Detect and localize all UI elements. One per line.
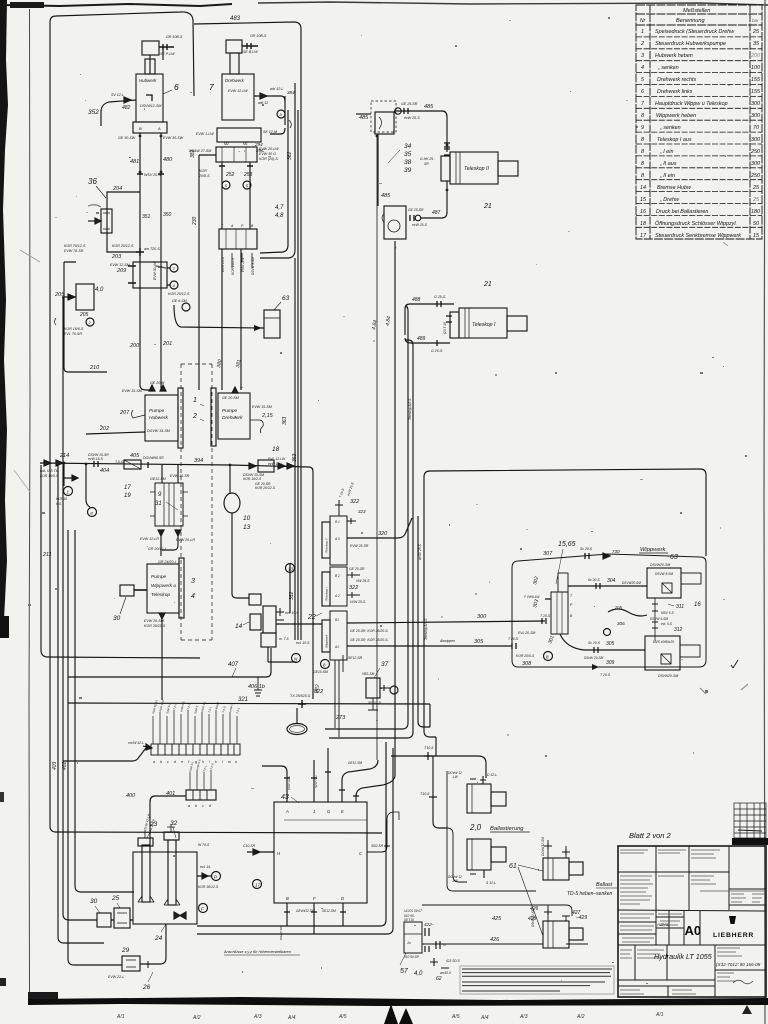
svg-text:Teleskop A/3-S: Teleskop A/3-S <box>424 618 428 640</box>
junction dots teleskop <box>446 144 449 147</box>
svg-text:1x: 1x <box>407 941 411 945</box>
svg-text:300: 300 <box>751 101 760 107</box>
svg-text:300: 300 <box>477 614 487 620</box>
wire 380 <box>221 249 223 390</box>
svg-text:402: 402 <box>62 761 68 770</box>
wire valve 9/31 down right <box>162 536 178 550</box>
svg-text:TD-5 heben–senken: TD-5 heben–senken <box>567 891 613 897</box>
svg-text:S: S <box>246 183 249 188</box>
svg-text:1: 1 <box>193 397 197 404</box>
svg-text:am T20-S: am T20-S <box>144 247 160 251</box>
svg-text:k: k <box>215 760 217 764</box>
stack section 2 body <box>330 567 347 606</box>
svg-text:63: 63 <box>282 295 290 302</box>
port A3 wire 320 <box>347 518 412 538</box>
top-left corner mark <box>10 2 44 8</box>
svg-text:312: 312 <box>674 627 683 633</box>
box 43 port letters <box>277 809 363 901</box>
bowtie drain valve <box>174 912 186 919</box>
wire valve 9/31 down left <box>160 536 162 556</box>
svg-text:24: 24 <box>154 935 163 942</box>
svg-text:GE12-SM: GE12-SM <box>150 477 166 481</box>
svg-text:482: 482 <box>122 105 131 111</box>
svg-text:SR: SR <box>424 162 429 166</box>
tick DSVW 15-SR <box>94 461 98 467</box>
circled 17 <box>253 880 262 889</box>
arrow on top edge <box>603 553 610 559</box>
svg-text:EVW 20-LW: EVW 20-LW <box>259 147 279 151</box>
wire 353 vertical long <box>297 110 299 640</box>
svg-text:382: 382 <box>190 149 196 158</box>
svg-text:EVW 30-LW: EVW 30-LW <box>153 261 157 280</box>
valve 52 in 204 <box>101 209 112 233</box>
port H wire <box>247 849 274 855</box>
svg-text:09 T10: 09 T10 <box>404 918 414 922</box>
port A2 <box>347 592 360 598</box>
svg-text:6v 20-S: 6v 20-S <box>588 578 600 582</box>
pump Hubwerk body <box>145 395 178 441</box>
wire 215 hook right <box>250 420 263 433</box>
tiny text blocks in title cells <box>620 850 764 994</box>
svg-text:4,0: 4,0 <box>95 287 104 293</box>
svg-text:14: 14 <box>235 623 243 630</box>
left bundle v3 <box>63 297 97 920</box>
pump drehwerk top tick <box>232 387 238 393</box>
svg-text:730: 730 <box>612 549 620 554</box>
rod upper <box>491 792 506 806</box>
svg-text:488: 488 <box>412 297 421 303</box>
wire 407 <box>68 648 271 677</box>
ball check circle on 485 <box>395 108 401 114</box>
svg-text:evW 25-S: evW 25-S <box>412 223 428 227</box>
svg-text:39: 39 <box>404 167 412 174</box>
svg-text:KOR 12-S: KOR 12-S <box>287 776 291 790</box>
svg-text:4: 4 <box>641 65 644 71</box>
svg-text:EVW 1-LW: EVW 1-LW <box>196 132 214 136</box>
svg-text:201: 201 <box>162 341 172 347</box>
pipe 23 cap <box>138 838 153 846</box>
svg-text:311: 311 <box>676 604 684 610</box>
terminal strip lead labels <box>151 699 241 715</box>
svg-text:B: B <box>139 126 142 131</box>
wire 488 <box>405 304 454 309</box>
tick EVW 12-LW <box>260 93 267 99</box>
svg-text:c: c <box>202 804 204 808</box>
svg-text:(23 T 25: (23 T 25 <box>443 322 447 334</box>
measuring-points table frame <box>636 5 762 239</box>
arrow on bottom edge <box>592 664 599 670</box>
wire loop right of Drehwerk 362 <box>270 96 285 134</box>
scan specks <box>28 17 747 857</box>
check valve GR10B-S at Hubwerk top <box>159 44 174 50</box>
suction pipe 32 <box>168 840 176 905</box>
LIEBHERR logo <box>713 916 754 939</box>
component 25 box <box>114 908 130 928</box>
wire 425 <box>422 905 572 916</box>
svg-text:A/1: A/1 <box>655 1012 664 1018</box>
wire 306 arc <box>608 609 647 616</box>
wire to TX10 <box>296 708 298 723</box>
ellipse 10/13 <box>224 493 240 513</box>
svg-text:KOR 16/2-S: KOR 16/2-S <box>243 477 262 481</box>
svg-text:DSvW 20-SM: DSvW 20-SM <box>584 656 604 660</box>
circled S left <box>222 181 230 189</box>
cylinder Ballast upper <box>543 858 569 880</box>
svg-text:211: 211 <box>42 552 52 558</box>
svg-text:Teleskop II: Teleskop II <box>325 538 329 553</box>
svg-text:MSV 6-S: MSV 6-S <box>661 611 675 615</box>
svg-text:E: E <box>341 809 344 814</box>
svg-text:6: 6 <box>174 82 179 92</box>
svg-text:363: 363 <box>282 416 288 425</box>
svg-text:37: 37 <box>381 661 389 668</box>
svg-text:a: a <box>153 760 155 764</box>
svg-text:T10-5: T10-5 <box>424 746 433 750</box>
circled 8 stack <box>321 660 330 669</box>
junction x230 <box>229 464 232 467</box>
svg-text:Wippwerk u: Wippwerk u <box>151 583 176 589</box>
component 29 box <box>122 956 140 971</box>
ticks 428/429 <box>544 909 570 916</box>
ticks on 305 interior <box>594 647 598 653</box>
svg-text:29: 29 <box>121 947 130 954</box>
svg-text:Drehwerk links: Drehwerk links <box>657 89 693 95</box>
wire bus to e <box>86 464 90 507</box>
valve block at Teleskop II <box>441 156 450 181</box>
svg-text:351: 351 <box>142 214 151 220</box>
svg-text:485: 485 <box>424 104 434 110</box>
svg-text:306: 306 <box>617 621 625 626</box>
motor symbol inner <box>146 95 152 101</box>
svg-text:487: 487 <box>432 210 441 216</box>
Wippwerk motor upper box <box>647 568 681 598</box>
wire bus into valve 9/31 <box>162 465 178 483</box>
port B2 <box>347 572 360 578</box>
junction dots on 480/481 <box>139 135 142 138</box>
svg-text:Pumpe: Pumpe <box>222 408 238 414</box>
wire down leg <box>433 756 447 828</box>
svg-text:16: 16 <box>694 602 701 608</box>
wire 201 <box>161 290 163 388</box>
table header text <box>640 8 759 24</box>
svg-text:DSvW12-SM: DSvW12-SM <box>531 908 535 927</box>
circled P right of tank <box>212 872 221 881</box>
svg-text:DSVW20-SM: DSVW20-SM <box>658 674 678 678</box>
component 37 box <box>366 678 380 698</box>
svg-text:EVW 20-LR: EVW 20-LR <box>176 538 195 542</box>
svg-text:20/8-S: 20/8-S <box>198 174 210 178</box>
svg-text:B 1: B 1 <box>335 520 340 524</box>
svg-text:14: 14 <box>640 185 646 191</box>
svg-text:–429: –429 <box>575 915 587 921</box>
svg-text:S: S <box>225 183 228 188</box>
bottom bar left tick <box>28 992 58 999</box>
stack bottom port <box>335 655 343 737</box>
long vertical D x424 <box>424 477 436 737</box>
svg-text:210: 210 <box>89 365 100 371</box>
svg-text:Teleskop I: Teleskop I <box>472 322 496 328</box>
ticks on 485 drop <box>444 143 450 147</box>
svg-text:2,15: 2,15 <box>261 413 274 419</box>
dashed box lock valve II <box>371 101 396 132</box>
main pressure bus <box>40 463 313 699</box>
svg-text:evL 16-: evL 16- <box>200 865 212 869</box>
check box 18 on bus <box>258 460 274 472</box>
circled F lower <box>199 904 208 913</box>
valve block 14 upper <box>249 594 261 605</box>
svg-text:KOR: KOR <box>199 169 207 173</box>
svg-text:61: 61 <box>509 863 517 870</box>
svg-text:a: a <box>188 804 190 808</box>
valve block 14 lower <box>261 633 276 647</box>
svg-text:A 3: A 3 <box>334 537 340 541</box>
svg-text:23: 23 <box>149 821 158 828</box>
svg-text:13: 13 <box>243 524 251 531</box>
svg-text:Teleskop: Teleskop <box>151 592 170 598</box>
svg-text:GEvW12-SM: GEvW12-SM <box>296 909 315 913</box>
top scan line right segment <box>258 2 768 5</box>
circled 7 <box>170 264 178 272</box>
svg-text:25: 25 <box>752 29 760 35</box>
svg-text:A1: A1 <box>334 645 339 649</box>
circled 5 right of 37 <box>390 686 398 694</box>
svg-text:273: 273 <box>335 715 346 721</box>
ticks on top ports <box>284 772 359 796</box>
svg-text:100: 100 <box>751 65 760 71</box>
svg-text:203: 203 <box>111 254 122 260</box>
svg-text:WSV 20-S: WSV 20-S <box>144 173 161 177</box>
svg-text:EVL 76-SR: EVL 76-SR <box>64 332 82 336</box>
pump Wippwerk shaft bar <box>179 558 184 618</box>
svg-text:DGvW12-SM: DGvW12-SM <box>541 837 545 856</box>
wire 352 hook <box>101 100 136 126</box>
lock valve II box <box>375 112 394 134</box>
circled 4 <box>170 281 178 289</box>
svg-text:Steuerdruck Senkbremse Wippwer: Steuerdruck Senkbremse Wippwerk <box>655 233 741 239</box>
svg-text:16: 16 <box>640 209 646 215</box>
svg-text:m: m <box>228 760 231 764</box>
svg-text:DSVW 8-SM: DSVW 8-SM <box>251 257 255 275</box>
wire 10/13 to 14 <box>232 513 249 598</box>
valve 9/31 side notches <box>150 492 188 516</box>
svg-text:2: 2 <box>192 413 197 420</box>
lower rod right <box>680 645 700 657</box>
svg-text:394: 394 <box>194 458 203 464</box>
suction pipe 23 <box>142 845 150 902</box>
svg-text:322: 322 <box>350 499 359 505</box>
svg-text:26: 26 <box>142 984 151 991</box>
svg-text:230: 230 <box>192 216 198 226</box>
svg-text:evL 6-S: evL 6-S <box>661 622 673 626</box>
svg-text:4,7: 4,7 <box>275 205 284 211</box>
svg-text:250: 250 <box>750 149 760 155</box>
svg-text:mVW 42-L: mVW 42-L <box>128 741 144 745</box>
circled J <box>604 629 611 636</box>
svg-text:6: 6 <box>641 89 644 95</box>
svg-text:evL 10-S: evL 10-S <box>296 641 310 645</box>
cylinder Teleskop II <box>450 152 498 184</box>
strip2 leads <box>190 770 211 790</box>
svg-text:MVS 40/60x25: MVS 40/60x25 <box>653 640 674 644</box>
pump hubwerk top ticks <box>149 385 166 391</box>
terminal strip leads <box>153 710 237 744</box>
svg-text:SE P-LW: SE P-LW <box>160 52 175 56</box>
43 top port wires <box>262 766 287 802</box>
lock valve I box <box>384 206 406 239</box>
svg-text:GE 20-SM: GE 20-SM <box>222 396 239 400</box>
svg-text:350: 350 <box>163 212 172 218</box>
wire left frame vertical <box>50 22 382 833</box>
inner square with dot <box>662 583 672 593</box>
svg-text:485: 485 <box>381 193 391 199</box>
pump Drehwerk shaft bar <box>211 388 216 446</box>
brake valve 15/65 body <box>551 592 568 634</box>
svg-text:204: 204 <box>112 186 122 192</box>
svg-text:wvSV 25-S: wvSV 25-S <box>418 543 422 560</box>
svg-text:EVW 78-SR: EVW 78-SR <box>64 249 84 253</box>
svg-text:Teleskop I aus: Teleskop I aus <box>657 137 692 143</box>
wire to circled 7 <box>167 268 170 285</box>
motor block 47/48 <box>219 229 257 249</box>
svg-text:GE10-SM: GE10-SM <box>313 670 328 674</box>
svg-text:7: 7 <box>209 82 214 92</box>
svg-text:KOR 20/12-S: KOR 20/12-S <box>168 292 190 296</box>
svg-text:T-5-G: T-5-G <box>115 460 124 464</box>
port C wire <box>367 820 390 852</box>
svg-text:„ II ein: „ II ein <box>659 173 675 179</box>
svg-text:6-S: 6-S <box>56 502 62 506</box>
svg-text:38: 38 <box>404 159 412 166</box>
svg-text:300: 300 <box>751 137 760 143</box>
svg-text:Hubwerk heben: Hubwerk heben <box>655 53 693 59</box>
svg-text:321: 321 <box>238 697 248 703</box>
tick pair below 57 <box>430 958 449 968</box>
component 40 box left <box>76 284 94 310</box>
svg-text:KOR 76/12-S: KOR 76/12-S <box>64 244 86 248</box>
tick under 29 <box>148 961 158 968</box>
svg-text:evL 10-S: evL 10-S <box>285 611 299 615</box>
arrow wire into 63 <box>174 305 264 328</box>
tick on teleskop II inlet <box>444 149 450 155</box>
svg-text:Nr: Nr <box>640 18 646 24</box>
svg-text:8: 8 <box>641 149 644 155</box>
svg-text:G 25-S: G 25-S <box>434 295 446 299</box>
svg-text:21: 21 <box>483 281 492 288</box>
svg-text:wkL U-S TM: wkL U-S TM <box>40 469 59 473</box>
title block lower cells <box>635 945 715 997</box>
tick into 37 <box>380 685 390 691</box>
long vertical A x408 <box>325 518 408 729</box>
wire 485 stub left <box>356 113 371 115</box>
svg-text:„ senken: „ senken <box>657 65 679 71</box>
svg-text:GE 30-SW: GE 30-SW <box>118 136 136 140</box>
svg-text:c: c <box>167 760 169 764</box>
pipe top fittings <box>145 824 175 838</box>
svg-text:SE B-LW: SE B-LW <box>243 50 258 54</box>
svg-text:A/4: A/4 <box>480 1015 489 1021</box>
long vertical B top bend <box>405 340 413 345</box>
left edge small blob lower <box>0 792 4 802</box>
tick TX25/625-S on 321 <box>298 700 306 708</box>
svg-text:426: 426 <box>490 937 500 943</box>
hook at 294 <box>289 120 291 128</box>
dashed gearbox frame <box>181 364 212 640</box>
tick G 25-S on 488 <box>437 301 441 307</box>
box 204 outline <box>107 192 140 252</box>
wire 480 <box>160 133 162 290</box>
svg-text:D: D <box>341 896 344 901</box>
valve left port <box>542 599 551 624</box>
svg-text:18: 18 <box>272 446 280 453</box>
svg-text:15,65: 15,65 <box>558 541 576 548</box>
terminal strip 401 <box>186 790 216 800</box>
wire 489 <box>405 338 450 343</box>
svg-text:34: 34 <box>404 143 412 150</box>
tick EVW12-SM <box>128 266 136 283</box>
ground symbol under 37 <box>368 698 378 710</box>
brake valve box above Hubwerk <box>142 41 159 55</box>
svg-text:43: 43 <box>281 794 289 801</box>
tick G 25-S on 489 <box>436 340 438 346</box>
svg-text:GE 20-M: GE 20-M <box>150 381 164 385</box>
box 63 top <box>264 310 280 338</box>
svg-text:425: 425 <box>492 916 502 922</box>
ticks on upper cylinder <box>470 776 486 784</box>
svg-text:KOR 20/12-S: KOR 20/12-S <box>255 486 276 490</box>
wire 485 mid vertical <box>377 134 379 206</box>
tick on wire 481 at 204 <box>136 248 144 256</box>
svg-text:Drehwerk: Drehwerk <box>225 78 245 83</box>
svg-text:70: 70 <box>753 125 759 131</box>
svg-text:Hauptdruck Wippw u Teleskop: Hauptdruck Wippw u Teleskop <box>655 101 728 107</box>
svg-text:SI02-SR: SI02-SR <box>371 844 384 848</box>
svg-text:9: 9 <box>641 125 644 131</box>
svg-text:P: P <box>214 875 217 880</box>
right edge line <box>764 0 765 1024</box>
svg-text:b: b <box>195 804 197 808</box>
svg-text:KOR 16/2-S: KOR 16/2-S <box>231 257 235 275</box>
svg-text:EVW 12-LR: EVW 12-LR <box>140 537 159 541</box>
left bundle v4 <box>68 530 122 965</box>
svg-text:1: 1 <box>641 29 644 35</box>
svg-text:155: 155 <box>751 77 761 83</box>
svg-text:SE12-SM: SE12-SM <box>322 909 336 913</box>
motor Drehwerk 7 <box>222 74 254 120</box>
bottom scale labels <box>116 1012 664 1021</box>
svg-text:DSVW 6-SM: DSVW 6-SM <box>650 617 668 621</box>
wire 202 <box>86 432 145 434</box>
notes block border <box>460 966 614 994</box>
svg-text:B 2: B 2 <box>335 574 340 578</box>
svg-text:SE12-SR: SE12-SR <box>348 656 363 660</box>
table body text <box>640 29 761 239</box>
title block outer frame <box>618 846 766 997</box>
svg-text:305: 305 <box>474 639 484 645</box>
svg-text:200: 200 <box>750 53 760 59</box>
svg-text:Ballastierung: Ballastierung <box>490 826 524 832</box>
svg-text:384: 384 <box>287 90 295 95</box>
Hubwerk valve plate <box>133 122 167 133</box>
circled e <box>88 508 97 517</box>
svg-text:Benennung: Benennung <box>676 18 706 24</box>
svg-text:D 12-L: D 12-L <box>487 773 497 777</box>
cylinder Ballast lower <box>543 921 569 948</box>
cylinder Ballastierung lower <box>467 839 491 870</box>
rod ballast lower <box>569 928 583 940</box>
svg-text:209: 209 <box>116 268 126 274</box>
svg-text:GR 10B-S: GR 10B-S <box>166 35 183 39</box>
svg-text:4,8: 4,8 <box>275 213 284 219</box>
